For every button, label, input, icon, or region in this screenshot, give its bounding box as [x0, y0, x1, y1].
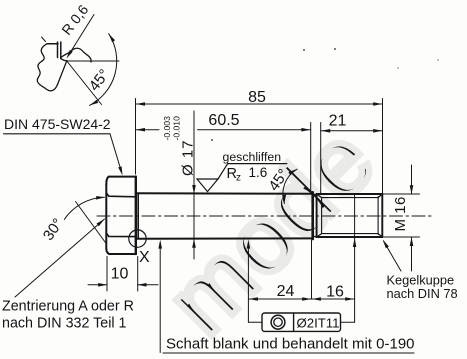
detail fillet — [61, 59, 67, 61]
svg-text:85: 85 — [248, 89, 266, 106]
thread minor lines — [322, 197, 379, 235]
svg-text:16: 16 — [326, 284, 344, 301]
hex facet line upper — [106, 193, 135, 197]
svg-text:1.6: 1.6 — [249, 165, 268, 180]
extension line 24/16 divider — [311, 240, 313, 299]
dimension 24 — [248, 298, 354, 300]
thread relief / undercut — [314, 194, 317, 236]
svg-text:Ø2IT11: Ø2IT11 — [297, 316, 340, 331]
dimension 10 extension lines — [107, 257, 138, 292]
scan artifacts — [211, 48, 439, 141]
svg-text:DIN 475-SW24-2: DIN 475-SW24-2 — [4, 116, 111, 132]
svg-text:30°: 30° — [40, 215, 67, 243]
detail small tick — [42, 37, 46, 42]
thread chamfer diagonals — [317, 194, 383, 237]
svg-text:60.5: 60.5 — [208, 112, 239, 129]
detail 45 deg arc — [90, 34, 117, 106]
extension line end of ground zone — [310, 123, 312, 192]
dimension 85 — [136, 103, 383, 105]
dimension 21 — [321, 130, 383, 132]
svg-text:10: 10 — [111, 266, 129, 283]
extension line at tip (85,21 dims) — [382, 99, 384, 194]
extension line thread start — [320, 123, 322, 194]
detail face double line — [58, 42, 61, 59]
detail circle X — [129, 230, 146, 247]
centerline — [97, 215, 433, 217]
45 deg chamfer extension — [291, 172, 313, 193]
frame leaders — [248, 321, 354, 323]
M16 dimension line — [411, 165, 413, 271]
30 deg arc — [64, 197, 104, 219]
svg-text:z: z — [236, 173, 241, 184]
dimension 10 — [88, 284, 158, 286]
detail chamfer section line — [58, 61, 67, 85]
dimension 16 — [312, 297, 321, 301]
concentricity symbol — [271, 315, 285, 329]
dia 17 dimension line — [193, 111, 195, 259]
extension line at head/shaft junction (85,60.5 dims) — [135, 99, 137, 175]
tolerance frame — [262, 313, 341, 331]
svg-text:nach DIN 78: nach DIN 78 — [387, 286, 458, 301]
M16 extension lines — [383, 194, 420, 237]
shaft bottom edge — [136, 237, 312, 239]
shoulder at end of ground shaft — [311, 192, 314, 239]
hex head outline — [106, 177, 136, 254]
surface finish symbol — [197, 179, 218, 192]
extension line 24 left — [247, 243, 249, 322]
45 deg arc — [283, 169, 297, 203]
30 deg chamfer extension line — [76, 202, 107, 245]
detail break line left — [37, 44, 57, 91]
svg-text:-0.003: -0.003 — [162, 116, 172, 141]
dimension 60.5 — [136, 129, 311, 131]
svg-text:Schaft blank und behandelt mit: Schaft blank und behandelt mit 0-190 — [166, 336, 415, 353]
DIN 475 leader — [110, 134, 122, 172]
svg-text:-0.010: -0.010 — [172, 116, 182, 141]
head washer face / shaft junction — [137, 193, 139, 239]
R 0,6 leader — [68, 15, 94, 57]
detail chamfer line — [67, 61, 102, 105]
svg-text:geschliffen: geschliffen — [223, 150, 282, 164]
svg-text:X: X — [139, 249, 150, 266]
detail break line right — [61, 48, 91, 62]
svg-text:Ø 17: Ø 17 — [180, 139, 197, 176]
hex facet line lower — [106, 233, 135, 236]
Zentrierung leader — [15, 219, 105, 297]
svg-text:Zentrierung A oder R: Zentrierung A oder R — [2, 299, 134, 315]
detail surface line — [67, 60, 119, 62]
Kegelkuppe leader — [384, 241, 402, 271]
watermark — [147, 106, 396, 355]
svg-text:nach DIN 332 Teil 1: nach DIN 332 Teil 1 — [2, 316, 127, 332]
svg-text:21: 21 — [329, 113, 347, 130]
svg-text:24: 24 — [277, 283, 295, 300]
svg-text:R 0,6: R 0,6 — [58, 1, 91, 37]
svg-text:M 16: M 16 — [392, 196, 409, 231]
detail top edge — [47, 43, 58, 45]
leader schaft note — [159, 243, 161, 353]
shaft top edge — [136, 192, 312, 194]
extension line 16 right — [354, 194, 356, 322]
thread major outline — [317, 194, 383, 237]
